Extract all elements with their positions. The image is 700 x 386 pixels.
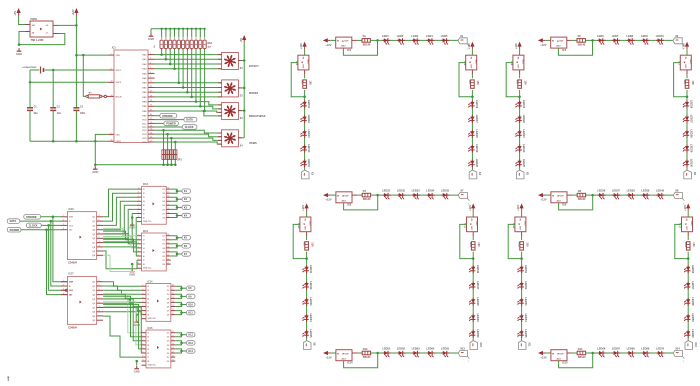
svg-text:LED63: LED63	[412, 346, 421, 350]
svg-text:LED21: LED21	[522, 100, 526, 109]
svg-text:LED14: LED14	[307, 144, 311, 153]
svg-text:IC17: IC17	[69, 273, 75, 276]
svg-text:5: 5	[99, 284, 100, 286]
svg-text:VSS: VSS	[116, 134, 121, 136]
svg-text:LED20: LED20	[475, 159, 479, 168]
svg-text:LED17: LED17	[475, 115, 479, 124]
svg-text:+O: +O	[46, 25, 49, 27]
svg-text:LED48: LED48	[476, 297, 480, 306]
svg-text:4: 4	[138, 199, 139, 202]
svg-text:I2: I2	[143, 240, 145, 242]
svg-text:GND CD+: GND CD+	[148, 318, 157, 320]
svg-text:LED47: LED47	[476, 281, 480, 290]
svg-text:18: 18	[167, 234, 169, 236]
svg-text:R12: R12	[684, 242, 687, 247]
svg-text:LED3: LED3	[411, 34, 418, 38]
svg-text:MODES: MODES	[249, 92, 259, 95]
svg-text:IC7: IC7	[678, 61, 681, 65]
svg-text:+12V: +12V	[299, 43, 303, 49]
svg-text:3: 3	[138, 242, 139, 244]
svg-text:LED9: LED9	[641, 34, 648, 38]
svg-text:I7: I7	[143, 260, 145, 262]
svg-text:16: 16	[167, 242, 169, 244]
svg-text:LED62: LED62	[397, 346, 406, 350]
svg-text:5: 5	[138, 250, 139, 252]
svg-text:I7: I7	[148, 357, 150, 359]
svg-text:X11: X11	[527, 342, 530, 347]
svg-text:LED27: LED27	[690, 115, 694, 124]
svg-text:ADJ: ADJ	[524, 221, 527, 225]
svg-text:23: 23	[150, 91, 152, 93]
svg-text:OUT: OUT	[559, 353, 564, 355]
svg-text:K11: K11	[188, 312, 193, 315]
svg-text:3: 3	[142, 293, 143, 295]
svg-text:GND: GND	[134, 369, 140, 373]
svg-text:4: 4	[142, 342, 143, 345]
svg-text:LED36: LED36	[597, 189, 606, 193]
svg-text:22: 22	[150, 86, 152, 88]
svg-text:5: 5	[99, 220, 100, 222]
svg-text:8: 8	[138, 263, 139, 265]
svg-text:2: 2	[142, 335, 143, 337]
svg-text:14: 14	[167, 249, 169, 252]
svg-text:8: 8	[99, 232, 100, 234]
svg-text:25: 25	[150, 100, 152, 102]
svg-text:I8: I8	[148, 361, 150, 363]
svg-text:LED22: LED22	[522, 115, 526, 124]
svg-text:K14: K14	[188, 350, 193, 353]
svg-text:IC12: IC12	[512, 223, 515, 229]
svg-text:LED2: LED2	[397, 34, 404, 38]
svg-text:SB140: SB140	[578, 43, 586, 46]
svg-text:ADJ: ADJ	[307, 60, 310, 64]
svg-text:R10: R10	[469, 242, 472, 247]
svg-text:17: 17	[150, 140, 152, 142]
svg-text:8: 8	[138, 216, 139, 218]
svg-text:11: 11	[172, 360, 174, 362]
svg-text:15: 15	[167, 246, 169, 248]
svg-text:O2: O2	[167, 337, 170, 339]
svg-text:12: 12	[167, 259, 169, 261]
svg-text:9: 9	[99, 237, 100, 239]
svg-text:LED61: LED61	[382, 346, 391, 350]
svg-text:LED46: LED46	[476, 265, 480, 274]
svg-text:13: 13	[172, 352, 174, 354]
svg-text:I6: I6	[148, 353, 150, 355]
svg-text:I7: I7	[143, 213, 145, 215]
svg-text:VSS2: VSS2	[116, 141, 122, 143]
svg-text:15: 15	[172, 343, 174, 345]
svg-text:4: 4	[63, 227, 64, 230]
svg-text:11: 11	[99, 310, 101, 312]
svg-text:+12V: +12V	[468, 205, 472, 211]
svg-text:MCLR: MCLR	[116, 96, 123, 98]
svg-text:I5: I5	[143, 252, 145, 254]
svg-text:I8: I8	[148, 315, 150, 317]
svg-text:3: 3	[138, 196, 139, 198]
svg-text:LED56: LED56	[691, 265, 695, 274]
svg-text:STROBE: STROBE	[26, 216, 37, 219]
svg-text:LED52: LED52	[524, 281, 528, 290]
svg-text:2: 2	[63, 220, 64, 222]
svg-text:2: 2	[138, 192, 139, 194]
svg-text:ADJ: ADJ	[522, 60, 525, 64]
svg-text:LED58: LED58	[691, 297, 695, 306]
svg-text:150: 150	[525, 242, 528, 247]
svg-text:8: 8	[111, 133, 112, 135]
svg-text:22u: 22u	[57, 113, 62, 115]
svg-text:LED15: LED15	[307, 159, 311, 168]
svg-text:150: 150	[476, 81, 479, 86]
svg-text:18: 18	[172, 331, 174, 333]
svg-text:4: 4	[138, 245, 139, 248]
svg-text:LED28: LED28	[690, 130, 694, 139]
svg-text:150: 150	[692, 242, 695, 247]
svg-text:1: 1	[111, 54, 112, 56]
svg-text:4: 4	[99, 279, 100, 282]
svg-text:LED30: LED30	[690, 159, 694, 168]
svg-text:GND CD+: GND CD+	[148, 365, 157, 367]
svg-text:IC6: IC6	[510, 61, 513, 65]
svg-text:O6: O6	[162, 209, 165, 211]
svg-text:GND: GND	[16, 52, 22, 56]
svg-text:D14: D14	[578, 348, 583, 351]
svg-text:O8: O8	[167, 315, 170, 317]
svg-text:X14: X14	[675, 347, 680, 350]
svg-text:LED29: LED29	[690, 144, 694, 153]
svg-text:6: 6	[150, 72, 151, 74]
svg-text:LED25: LED25	[522, 159, 526, 168]
svg-text:+12V: +12V	[682, 43, 686, 49]
svg-text:21: 21	[150, 81, 152, 83]
svg-text:16: 16	[150, 137, 152, 139]
svg-text:14: 14	[172, 300, 174, 303]
svg-text:OUT: OUT	[344, 195, 349, 197]
svg-text:ITEMS: ITEMS	[249, 142, 257, 145]
svg-text:O1: O1	[162, 189, 165, 191]
svg-text:16: 16	[172, 293, 174, 295]
svg-text:VDD: VDD	[116, 55, 121, 57]
svg-text:O8: O8	[162, 264, 165, 266]
svg-text:CD4094: CD4094	[68, 261, 77, 264]
svg-text:11: 11	[99, 245, 101, 247]
svg-text:LED67: LED67	[612, 346, 621, 350]
svg-text:10: 10	[99, 306, 101, 308]
svg-text:OUT: OUT	[344, 41, 349, 43]
svg-text:11: 11	[167, 263, 169, 265]
svg-text:+12V: +12V	[540, 43, 546, 47]
svg-text:LED40: LED40	[656, 189, 665, 193]
svg-text:LED24: LED24	[522, 144, 526, 153]
svg-text:18: 18	[167, 188, 169, 190]
svg-text:17: 17	[172, 335, 174, 337]
svg-text:LED16: LED16	[475, 100, 479, 109]
svg-text:+5V: +5V	[13, 11, 17, 16]
svg-text:15: 15	[167, 200, 169, 202]
svg-text:11: 11	[167, 216, 169, 218]
svg-text:+12V: +12V	[467, 43, 471, 49]
svg-text:GND: GND	[148, 37, 154, 41]
svg-text:IC11: IC11	[464, 223, 467, 229]
svg-text:K10: K10	[188, 304, 193, 307]
svg-text:6: 6	[138, 208, 139, 210]
svg-text:8: 8	[99, 297, 100, 299]
svg-text:6: 6	[142, 305, 143, 307]
svg-text:ADJ: ADJ	[309, 221, 312, 225]
svg-text:7: 7	[142, 309, 143, 311]
svg-text:+12V: +12V	[541, 198, 547, 202]
svg-text:+5V: +5V	[239, 38, 243, 43]
svg-text:150: 150	[308, 81, 311, 86]
svg-text:5: 5	[150, 67, 151, 69]
svg-text:I3: I3	[148, 294, 150, 296]
svg-text:+12V: +12V	[326, 355, 332, 359]
svg-text:4: 4	[99, 214, 100, 217]
svg-text:GND: GND	[92, 170, 98, 174]
svg-text:O3: O3	[162, 197, 165, 199]
svg-text:19: 19	[111, 140, 113, 142]
svg-text:5: 5	[138, 204, 139, 206]
svg-text:6: 6	[99, 289, 100, 291]
svg-text:5: 5	[142, 347, 143, 349]
svg-text:12: 12	[172, 309, 174, 311]
svg-text:12: 12	[172, 356, 174, 358]
svg-text:K13: K13	[188, 342, 193, 345]
svg-text:LED38: LED38	[627, 189, 636, 193]
svg-text:LED54: LED54	[524, 314, 528, 323]
svg-text:STROBE: STROBE	[162, 115, 173, 118]
svg-text:7: 7	[138, 259, 139, 261]
svg-text:TSR 1-2450: TSR 1-2450	[31, 39, 45, 42]
svg-text:13: 13	[167, 255, 169, 257]
svg-text:JP1: JP1	[177, 158, 182, 161]
svg-text:IC1: IC1	[112, 46, 116, 49]
svg-text:+12V: +12V	[326, 198, 332, 202]
svg-text:17: 17	[167, 192, 169, 194]
svg-text:DATA: DATA	[10, 220, 17, 223]
svg-text:I6: I6	[148, 306, 150, 308]
svg-text:24: 24	[150, 94, 152, 97]
svg-text:O6: O6	[162, 256, 165, 258]
svg-text:OUT: OUT	[559, 195, 564, 197]
svg-text:6: 6	[138, 255, 139, 257]
svg-text:STR: STR	[69, 217, 74, 219]
svg-text:IC14: IC14	[148, 280, 154, 283]
svg-text:LED39: LED39	[641, 189, 650, 193]
svg-text:O5: O5	[162, 205, 165, 207]
svg-text:7: 7	[150, 77, 151, 79]
svg-text:K12: K12	[188, 334, 193, 337]
svg-text:6: 6	[142, 352, 143, 354]
svg-text:12: 12	[167, 212, 169, 214]
svg-text:22u: 22u	[34, 113, 39, 115]
svg-text:I2: I2	[148, 337, 150, 339]
svg-text:SB140: SB140	[363, 198, 371, 201]
svg-text:8: 8	[142, 313, 143, 315]
svg-text:D13: D13	[363, 348, 368, 351]
svg-text:I2: I2	[148, 290, 150, 292]
svg-text:I3: I3	[143, 197, 145, 199]
svg-text:3: 3	[150, 58, 151, 60]
svg-text:ADJ: ADJ	[474, 60, 477, 64]
svg-text:LED13: LED13	[307, 130, 311, 139]
svg-text:GND: GND	[129, 272, 135, 276]
svg-text:O1: O1	[167, 286, 170, 288]
svg-text:LED60: LED60	[691, 329, 695, 338]
svg-text:+12V: +12V	[71, 9, 75, 15]
svg-text:SB140: SB140	[578, 356, 586, 359]
svg-text:OSC2: OSC2	[116, 82, 123, 84]
svg-text:I1: I1	[143, 189, 145, 191]
svg-text:RN1: RN1	[208, 43, 213, 45]
svg-text:8: 8	[142, 360, 143, 362]
svg-text:IC14: IC14	[347, 362, 353, 365]
svg-text:LED69: LED69	[641, 346, 650, 350]
svg-text:I7: I7	[148, 311, 150, 313]
svg-text:LED33: LED33	[412, 189, 421, 193]
svg-text:LED64: LED64	[426, 346, 435, 350]
svg-text:4: 4	[150, 61, 151, 64]
svg-text:16: 16	[172, 339, 174, 341]
svg-text:POWER: POWER	[10, 229, 20, 232]
svg-text:POWER: POWER	[166, 123, 176, 126]
svg-text:100n: 100n	[80, 113, 86, 115]
svg-text:CLK: CLK	[69, 225, 74, 227]
svg-text:1: 1	[63, 215, 64, 217]
svg-text:LED18: LED18	[475, 130, 479, 139]
svg-text:ADJ: ADJ	[689, 60, 692, 64]
svg-text:7: 7	[138, 212, 139, 214]
svg-text:LED55: LED55	[524, 329, 528, 338]
svg-text:LED57: LED57	[691, 281, 695, 290]
svg-text:LED68: LED68	[627, 346, 636, 350]
svg-text:O8: O8	[162, 217, 165, 219]
svg-text:26: 26	[150, 105, 152, 107]
svg-text:IC15: IC15	[562, 362, 568, 365]
svg-text:X13: X13	[460, 347, 465, 350]
svg-text:O7: O7	[167, 357, 170, 359]
svg-text:LED51: LED51	[524, 265, 528, 274]
svg-text:O3: O3	[162, 244, 165, 246]
svg-text:4: 4	[142, 296, 143, 299]
svg-text:32: 32	[111, 95, 113, 97]
svg-text:CLK: CLK	[69, 290, 74, 292]
svg-text:17: 17	[167, 238, 169, 240]
svg-text:LED43: LED43	[309, 297, 313, 306]
svg-text:14: 14	[167, 203, 169, 206]
svg-text:13: 13	[172, 305, 174, 307]
svg-text:11: 11	[172, 313, 174, 315]
svg-text:DATA: DATA	[186, 119, 193, 122]
svg-text:14: 14	[172, 346, 174, 349]
svg-text:I3: I3	[148, 341, 150, 343]
svg-text:BRIGHTNESS: BRIGHTNESS	[249, 115, 266, 118]
svg-text:O7: O7	[162, 213, 165, 215]
svg-text:9: 9	[111, 68, 112, 70]
svg-text:6: 6	[99, 224, 100, 226]
svg-text:OUT: OUT	[344, 353, 349, 355]
svg-text:I5: I5	[148, 302, 150, 304]
svg-text:LED32: LED32	[397, 189, 406, 193]
svg-text:EFFECT: EFFECT	[249, 65, 259, 68]
svg-text:IC3: IC3	[562, 49, 567, 52]
svg-text:LED19: LED19	[475, 144, 479, 153]
svg-text:LED42: LED42	[309, 281, 313, 290]
svg-text:X12: X12	[694, 342, 697, 347]
svg-text:CLOCK: CLOCK	[185, 126, 194, 129]
svg-text:STR: STR	[69, 282, 74, 284]
svg-text:13: 13	[150, 125, 152, 127]
svg-text:R11: R11	[517, 242, 520, 247]
svg-text:LED45: LED45	[309, 329, 313, 338]
svg-text:O1: O1	[162, 236, 165, 238]
svg-text:IC10: IC10	[297, 223, 300, 229]
svg-text:+12V: +12V	[516, 205, 520, 211]
svg-text:LED31: LED31	[382, 189, 391, 193]
svg-text:7: 7	[142, 356, 143, 358]
svg-text:IC5: IC5	[463, 61, 466, 65]
svg-text:I3: I3	[143, 244, 145, 246]
svg-text:27: 27	[150, 109, 152, 111]
svg-text:5: 5	[142, 301, 143, 303]
svg-text:150: 150	[691, 81, 694, 86]
svg-text:7: 7	[99, 228, 100, 230]
svg-text:LED53: LED53	[524, 297, 528, 306]
svg-text:+12V: +12V	[514, 43, 518, 49]
svg-text:LED65: LED65	[441, 346, 450, 350]
svg-text:I1: I1	[143, 236, 145, 238]
svg-text:I5: I5	[143, 205, 145, 207]
svg-text:I1: I1	[148, 286, 150, 288]
svg-text:13: 13	[167, 208, 169, 210]
svg-text:9: 9	[99, 302, 100, 304]
svg-text:LED44: LED44	[309, 314, 313, 323]
svg-text:LED23: LED23	[522, 130, 526, 139]
svg-text:IC4: IC4	[295, 61, 298, 65]
svg-text:O2: O2	[167, 290, 170, 292]
svg-text:IC15: IC15	[148, 328, 154, 330]
svg-text:IC8: IC8	[347, 204, 352, 207]
svg-text:LED7: LED7	[612, 34, 619, 38]
svg-text:1: 1	[142, 285, 143, 287]
svg-text:IC9: IC9	[562, 204, 567, 207]
svg-text:O3: O3	[167, 294, 170, 296]
svg-text:I6: I6	[143, 209, 145, 211]
svg-text:28: 28	[150, 114, 152, 116]
svg-text:OUT: OUT	[559, 41, 564, 43]
svg-text:LED4: LED4	[426, 34, 433, 38]
svg-text:O5: O5	[167, 302, 170, 304]
svg-text:3: 3	[63, 224, 64, 226]
svg-text:O6: O6	[167, 353, 170, 355]
svg-text:O6: O6	[167, 306, 170, 308]
svg-text:IC16: IC16	[69, 208, 75, 211]
svg-text:150: 150	[310, 242, 313, 247]
svg-text:14: 14	[150, 128, 152, 131]
svg-text:ADJ: ADJ	[475, 221, 478, 225]
svg-text:LED10: LED10	[656, 34, 665, 38]
svg-text:X10: X10	[479, 342, 482, 347]
svg-text:IC13: IC13	[143, 231, 149, 233]
svg-text:O5: O5	[167, 349, 170, 351]
svg-text:1: 1	[138, 188, 139, 190]
svg-text:O1: O1	[167, 333, 170, 335]
svg-text:I2: I2	[143, 193, 145, 195]
svg-text:+12V: +12V	[541, 355, 547, 359]
svg-text:2: 2	[138, 238, 139, 240]
svg-text:15: 15	[172, 297, 174, 299]
svg-text:LED35: LED35	[441, 189, 450, 193]
